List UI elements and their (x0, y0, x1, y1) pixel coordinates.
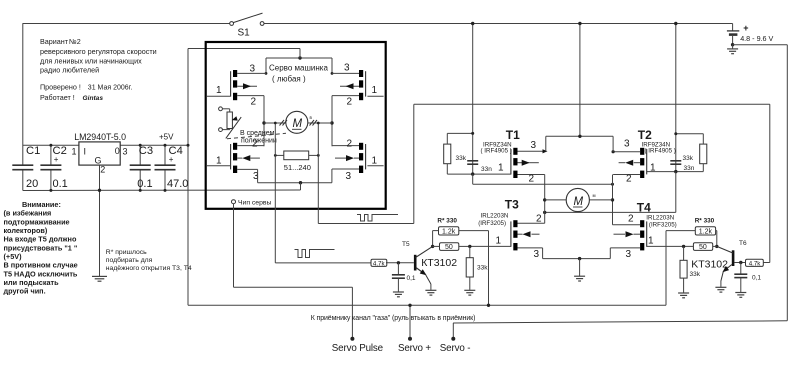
svg-text:Servo Pulse: Servo Pulse (332, 343, 384, 354)
svg-text:В противном случае: В противном случае (4, 261, 78, 270)
svg-text:3: 3 (531, 140, 537, 151)
svg-text:IRL2203N: IRL2203N (646, 215, 674, 222)
svg-text:4.8 - 9.6 V: 4.8 - 9.6 V (740, 34, 773, 43)
svg-text:I: I (84, 146, 87, 156)
svg-text:1: 1 (72, 146, 77, 156)
svg-text:радио любителей: радио любителей (40, 66, 99, 75)
svg-text:1: 1 (648, 236, 654, 247)
svg-text:KT3102: KT3102 (691, 259, 728, 271)
svg-text:+5V: +5V (159, 133, 174, 142)
svg-text:(IRF3205): (IRF3205) (478, 220, 506, 227)
svg-text:3: 3 (250, 64, 256, 75)
svg-text:51...240: 51...240 (284, 163, 311, 172)
svg-text:1.2k: 1.2k (442, 228, 456, 235)
svg-text:R* пришлось: R* пришлось (106, 249, 147, 256)
svg-text:3: 3 (346, 171, 352, 182)
svg-text:+: + (169, 155, 174, 164)
svg-text:33n: 33n (684, 165, 695, 172)
svg-text:0.1: 0.1 (53, 178, 68, 190)
svg-text:33k: 33k (477, 265, 488, 272)
svg-text:2: 2 (628, 213, 634, 224)
svg-text:T3: T3 (505, 198, 519, 212)
svg-text:3: 3 (534, 249, 540, 260)
svg-text:подтормаживание: подтормаживание (4, 217, 70, 226)
svg-text:3: 3 (624, 139, 630, 150)
svg-text:1: 1 (496, 236, 502, 247)
svg-text:2: 2 (100, 165, 105, 175)
svg-text:надёжного открытия Т3, Т4: надёжного открытия Т3, Т4 (106, 265, 192, 272)
svg-text:33k: 33k (683, 155, 694, 162)
svg-text:Работает !: Работает ! (40, 93, 75, 102)
svg-text:1: 1 (372, 85, 378, 96)
svg-text:реверсивного регулятора скорос: реверсивного регулятора скорости (40, 47, 157, 56)
svg-text:колекторов): колекторов) (4, 226, 48, 235)
svg-text:1: 1 (650, 163, 656, 174)
svg-text:2: 2 (529, 174, 535, 185)
svg-text:М: М (293, 118, 303, 130)
svg-text:+: + (743, 23, 748, 33)
svg-text:или подыскать: или подыскать (4, 278, 60, 287)
svg-text:R* 330: R* 330 (695, 217, 715, 224)
svg-text:другой чип.: другой чип. (4, 287, 46, 296)
svg-text:1: 1 (216, 155, 222, 166)
svg-text:3: 3 (344, 63, 350, 74)
svg-text:(IRF3205): (IRF3205) (649, 222, 677, 229)
svg-text:для ленивых или начинающих: для ленивых или начинающих (40, 57, 142, 66)
svg-text:33k: 33k (690, 271, 701, 278)
svg-text:№2: №2 (69, 37, 81, 46)
svg-text:IRL2203N: IRL2203N (481, 213, 509, 220)
svg-text:К приёмнику канал "газа" (ру: К приёмнику канал "газа" (руль втыкать в… (311, 315, 476, 322)
svg-text:0,1: 0,1 (407, 275, 416, 282)
svg-text:T2: T2 (638, 128, 652, 142)
svg-text:Т5: Т5 (402, 241, 410, 248)
svg-text:1.2k: 1.2k (699, 228, 713, 235)
svg-text:Т6: Т6 (739, 240, 747, 247)
svg-text:0,1: 0,1 (752, 275, 761, 282)
svg-text:C3: C3 (139, 145, 153, 157)
svg-text:50: 50 (699, 244, 707, 251)
svg-text:0.1: 0.1 (137, 178, 152, 190)
svg-text:S1: S1 (238, 28, 251, 39)
svg-text:31 Мая 2006г.: 31 Мая 2006г. (88, 85, 133, 92)
svg-text:+: + (54, 155, 59, 164)
svg-text:(+5V): (+5V) (4, 252, 23, 261)
svg-text:LM2940T-5.0: LM2940T-5.0 (74, 132, 126, 142)
svg-text:33n: 33n (481, 166, 492, 173)
svg-text:1: 1 (498, 163, 504, 174)
svg-text:Вариант: Вариант (40, 37, 69, 46)
svg-text:C1: C1 (26, 145, 40, 157)
svg-text:( IRF4905 ): ( IRF4905 ) (645, 147, 676, 154)
svg-text:( IRF4905 ): ( IRF4905 ) (481, 147, 512, 154)
svg-text:В среднем: В среднем (240, 130, 275, 137)
svg-text:2: 2 (347, 97, 353, 108)
svg-text:Серво машинка: Серво машинка (269, 64, 328, 73)
svg-text:присудствовать "1 ": присудствовать "1 " (4, 243, 78, 252)
svg-text:( любая ): ( любая ) (272, 75, 306, 84)
svg-text:подбирать для: подбирать для (106, 256, 153, 264)
svg-text:R* 330: R* 330 (437, 217, 457, 224)
svg-text:4.7k: 4.7k (373, 260, 386, 267)
svg-text:50: 50 (445, 244, 453, 251)
svg-text:(в избежания: (в избежания (4, 209, 52, 218)
svg-text:2: 2 (252, 138, 258, 149)
svg-text:Проверено !: Проверено ! (40, 83, 81, 92)
svg-text:2: 2 (251, 97, 257, 108)
svg-text:T1: T1 (506, 128, 520, 142)
svg-text:2: 2 (536, 213, 542, 224)
svg-text:положении: положении (241, 138, 277, 145)
svg-text:33k: 33k (456, 155, 467, 162)
svg-text:Servo -: Servo - (440, 343, 471, 354)
svg-text:Gintas: Gintas (83, 95, 104, 102)
svg-text:М: М (574, 196, 584, 208)
svg-text:3: 3 (123, 146, 128, 156)
svg-text:2: 2 (626, 174, 632, 185)
svg-text:Servo +: Servo + (398, 343, 431, 354)
svg-text:3: 3 (626, 249, 632, 260)
svg-text:КТ3102: КТ3102 (421, 257, 457, 269)
svg-text:20: 20 (26, 178, 38, 190)
svg-text:47.0: 47.0 (167, 178, 188, 190)
svg-text:На входе Т5 должно: На входе Т5 должно (4, 235, 77, 244)
svg-text:Внимание:: Внимание: (22, 200, 61, 209)
svg-text:4.7k: 4.7k (749, 260, 762, 267)
svg-text:Чип сервы: Чип сервы (238, 200, 271, 207)
svg-text:2: 2 (347, 138, 353, 149)
svg-text:0: 0 (115, 146, 120, 156)
svg-text:1: 1 (372, 155, 378, 166)
svg-text:Т5 НАДО исключить: Т5 НАДО исключить (4, 269, 78, 278)
svg-text:T4: T4 (637, 201, 651, 215)
svg-text:1: 1 (216, 85, 222, 96)
svg-text:м: м (593, 193, 596, 198)
